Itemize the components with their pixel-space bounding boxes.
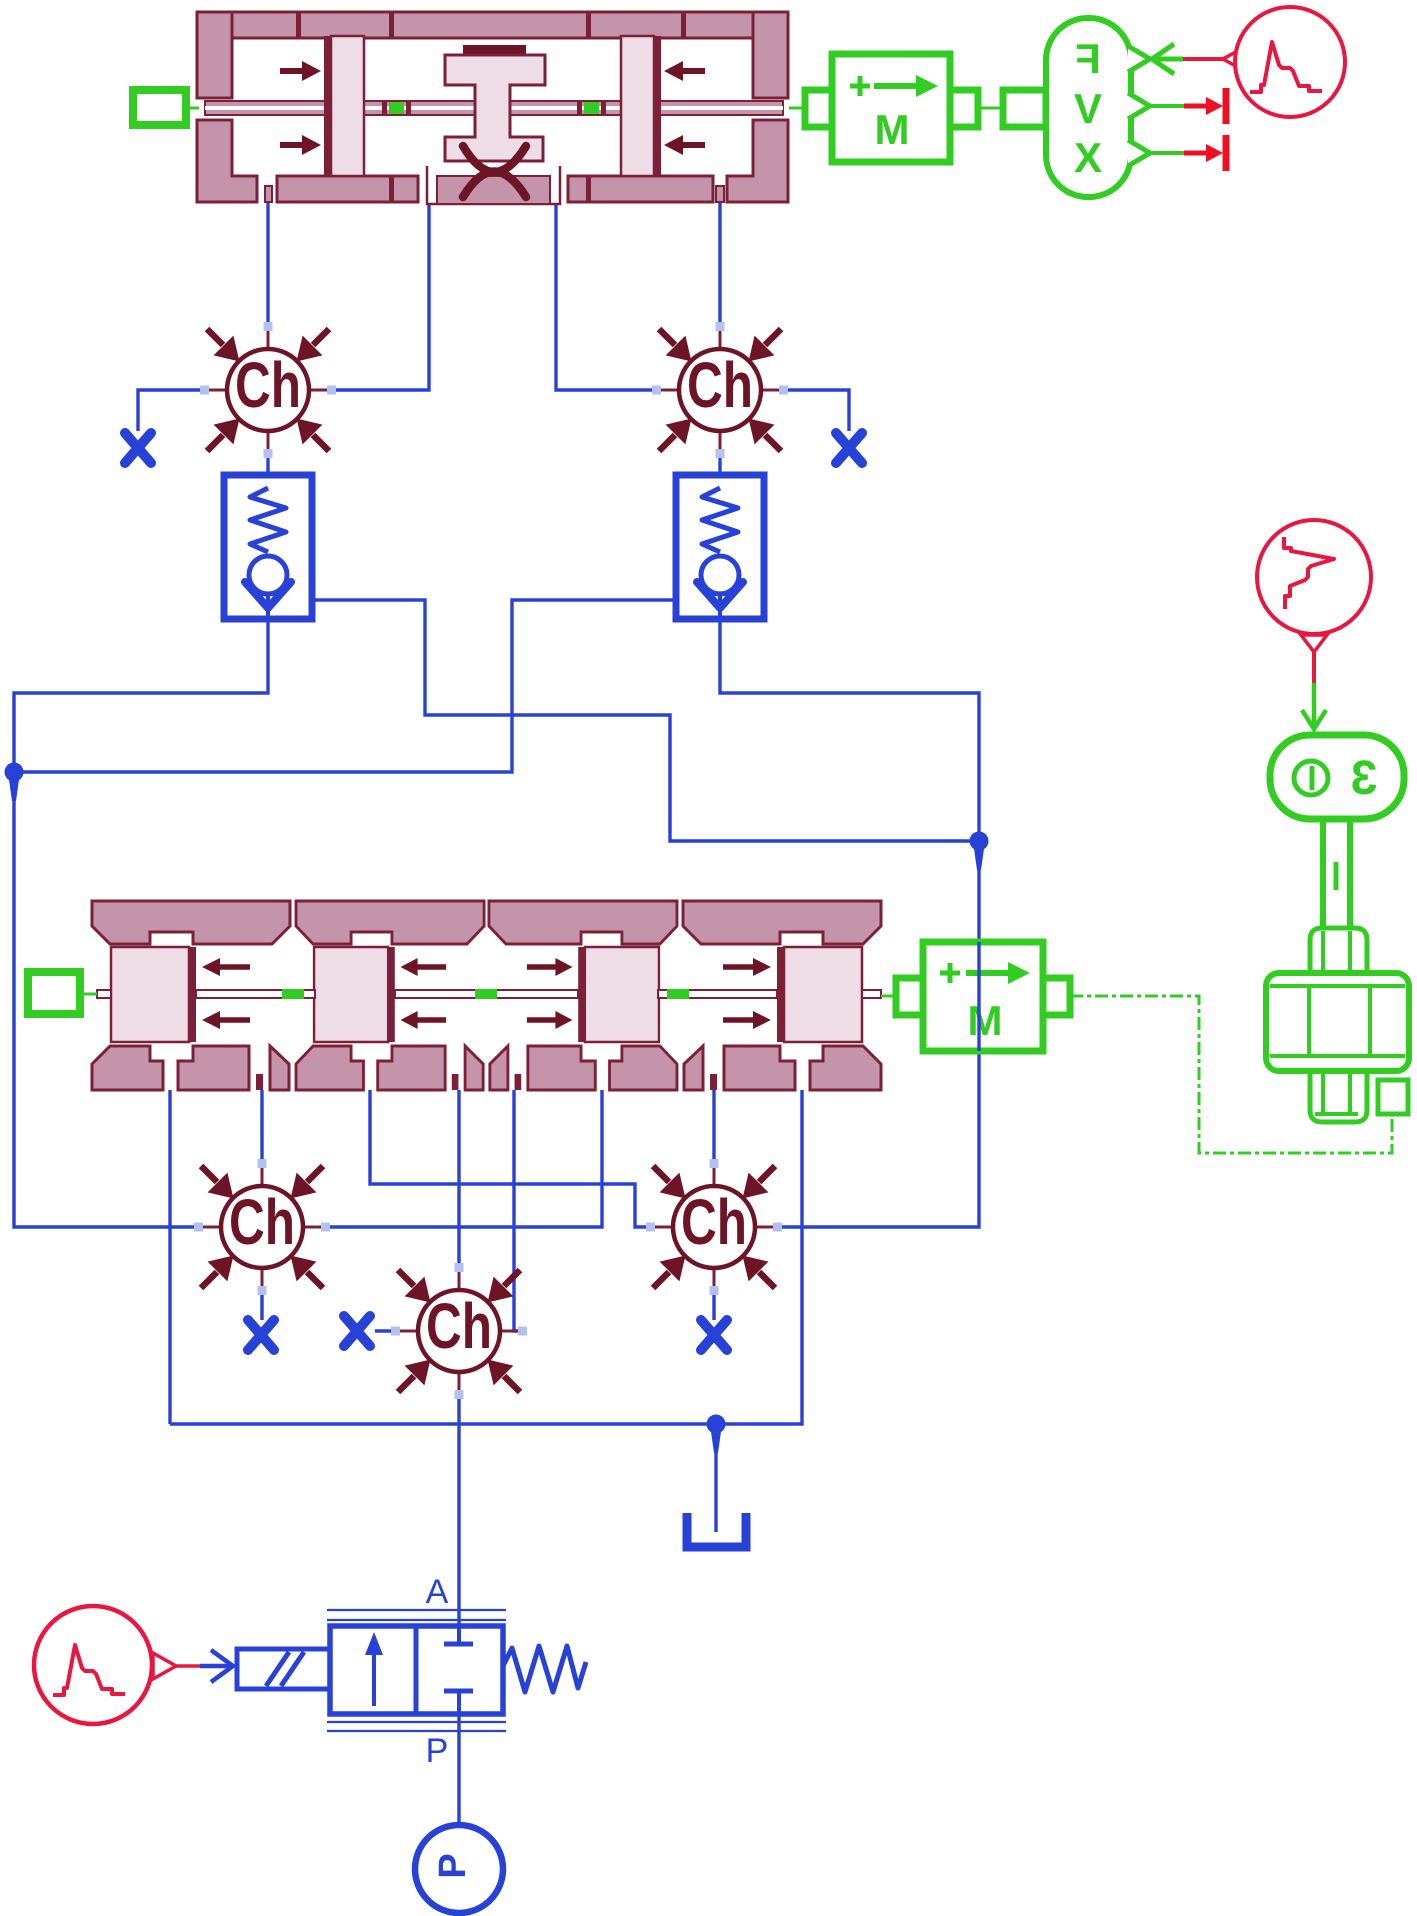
valve V3 closed port marks bbox=[444, 1626, 473, 1714]
rod joint marks bbox=[382, 100, 606, 116]
chamber Ch5 bbox=[391, 1263, 527, 1399]
signal source S3 bbox=[34, 1606, 152, 1724]
signal source S1 bbox=[1235, 7, 1345, 117]
wire top valve port1 to chamber Ch1 bbox=[266, 202, 269, 327]
valve V3 body bbox=[327, 1610, 506, 1731]
wire mid valve port2 to chamber Ch3 bbox=[260, 1090, 263, 1164]
lever block 3 bbox=[1270, 735, 1404, 819]
wire mid valve port1 down to bottom rail bbox=[168, 1090, 171, 1424]
valve V3 spring bbox=[503, 1646, 586, 1692]
wire CV2 side to node J1 bbox=[14, 600, 676, 772]
FVX output notches bbox=[1128, 46, 1150, 166]
wire node J3 to tank T1 bbox=[714, 1424, 717, 1532]
wire chamber Ch3 to plug X3 bbox=[260, 1290, 263, 1320]
rod link dot A bbox=[389, 102, 404, 114]
mid valve section S1 bbox=[92, 901, 290, 1090]
top valve left piston bbox=[324, 36, 331, 176]
terminal arrow X bbox=[1152, 135, 1226, 171]
svg-text:3: 3 bbox=[1351, 752, 1378, 805]
top valve right flow arrows bbox=[664, 61, 705, 155]
wire mid valve port3 to chamber Ch4 left bbox=[370, 1090, 652, 1227]
chamber Ch4 bbox=[646, 1159, 782, 1295]
plug X2 bbox=[836, 433, 862, 463]
svg-text:M: M bbox=[875, 106, 910, 153]
svg-text:P: P bbox=[432, 1853, 474, 1878]
wire CV1 side to node J2 bbox=[312, 600, 979, 841]
svg-text:F: F bbox=[1075, 35, 1101, 82]
top valve spool rod bbox=[205, 101, 783, 115]
wire valve V3 port P to pressure source P1 bbox=[457, 1694, 460, 1824]
svg-text:A: A bbox=[426, 1573, 449, 1611]
svg-text:X: X bbox=[1074, 134, 1102, 181]
mid valve green port bbox=[28, 972, 80, 1014]
actuator lower collar bbox=[1310, 1071, 1367, 1122]
mid valve spool rod bbox=[97, 990, 881, 998]
rod link dot B bbox=[584, 102, 599, 114]
signal wire S2 to lever bbox=[1312, 652, 1316, 683]
node J2 bbox=[970, 832, 989, 871]
wire Ch1 to check valve CV1 bbox=[266, 453, 269, 475]
top valve wall ticks bbox=[296, 13, 686, 201]
signal link dashed M2 to actuator bbox=[1070, 996, 1392, 1153]
wire chamber Ch5 bottom to valve V3 port A bbox=[457, 1394, 460, 1646]
flapper I-beam bbox=[445, 55, 545, 161]
top servovalve body bbox=[197, 12, 788, 202]
top valve green port bbox=[133, 90, 186, 125]
top valve left flow arrows bbox=[280, 61, 321, 155]
wire mid valve port4 to chamber Ch5 top bbox=[457, 1090, 460, 1268]
plug X5 bbox=[701, 1320, 727, 1350]
wire chamber Ch3 right to mid valve port6 bbox=[325, 1090, 602, 1227]
signal wire into FVX port F bbox=[1152, 44, 1183, 74]
mass block M1 bbox=[789, 54, 978, 162]
mid valve section S2 bbox=[296, 901, 484, 1090]
chamber Ch1 bbox=[200, 322, 336, 458]
actuator nut body bbox=[1266, 973, 1409, 1071]
signal source S1 output triangle bbox=[1223, 49, 1241, 69]
wire top valve port4 to chamber Ch2 bbox=[718, 202, 721, 327]
mid valve section S3 bbox=[489, 901, 677, 1090]
node J1 bbox=[5, 763, 24, 802]
actuator signal port bbox=[1378, 1080, 1408, 1114]
drain cup bbox=[427, 166, 560, 204]
tank T1 bbox=[687, 1513, 746, 1547]
actuator shaft bbox=[1323, 819, 1350, 930]
wire top valve port2 to chamber Ch1 right bbox=[331, 203, 429, 390]
rod link dot D bbox=[475, 989, 497, 999]
plug X4 bbox=[344, 1316, 370, 1346]
chamber Ch3 bbox=[194, 1159, 330, 1295]
wire chamber Ch5 to plug X4 bbox=[375, 1329, 396, 1332]
nozzle seat X bbox=[463, 146, 526, 197]
plug X3 bbox=[248, 1320, 274, 1350]
node J3 bbox=[707, 1415, 726, 1454]
mass block M2 bbox=[881, 942, 1070, 1051]
wire Ch2 to plug X2 bbox=[783, 390, 849, 431]
wire Ch1 to plug X1 bbox=[138, 390, 205, 431]
valve V3 pilot actuator bbox=[237, 1649, 330, 1689]
check valve CV2 bbox=[676, 475, 764, 619]
signal wire S3 to valve V3 bbox=[176, 1664, 206, 1668]
wire Ch2 to check valve CV2 bbox=[718, 453, 721, 475]
mid valve section S4 bbox=[683, 901, 881, 1090]
plug X1 bbox=[125, 433, 151, 463]
wire chamber Ch4 to plug X5 bbox=[712, 1290, 715, 1320]
wire CV1 bottom to node J1 bbox=[14, 619, 268, 1227]
flapper stop bar bbox=[463, 45, 526, 54]
wire top valve port3 to chamber Ch2 left bbox=[556, 203, 657, 390]
top valve right piston bbox=[621, 36, 654, 176]
wire CV2 bottom to node J2 bbox=[720, 619, 979, 841]
actuator upper collar bbox=[1310, 928, 1367, 973]
signal source S2 bbox=[1257, 520, 1371, 634]
wire mid valve port8 down to bottom rail bbox=[170, 1090, 802, 1424]
valve V3 flow arrow bbox=[372, 1652, 376, 1706]
wire node J2 down right rail to chamber Ch4 bbox=[777, 841, 979, 1227]
signal source S2 output triangle bbox=[1301, 635, 1327, 652]
rod link dot E bbox=[667, 989, 689, 999]
svg-text:V: V bbox=[1074, 85, 1102, 132]
check valve CV1 bbox=[224, 475, 312, 619]
wire right rail over mass block M2 bbox=[977, 942, 980, 1051]
terminal arrow V bbox=[1152, 88, 1226, 124]
wire mid valve port5 to chamber Ch5 right bbox=[514, 1090, 522, 1331]
wire mid valve port7 to chamber Ch4 bbox=[712, 1090, 715, 1164]
signal source S3 output triangle bbox=[153, 1653, 176, 1679]
pressure source P1 bbox=[415, 1825, 503, 1913]
rod link dot C bbox=[282, 989, 304, 999]
svg-text:M: M bbox=[968, 997, 1003, 1044]
svg-text:P: P bbox=[426, 1732, 449, 1770]
sensor block FVX bbox=[1003, 90, 1046, 127]
chamber Ch2 bbox=[652, 322, 788, 458]
